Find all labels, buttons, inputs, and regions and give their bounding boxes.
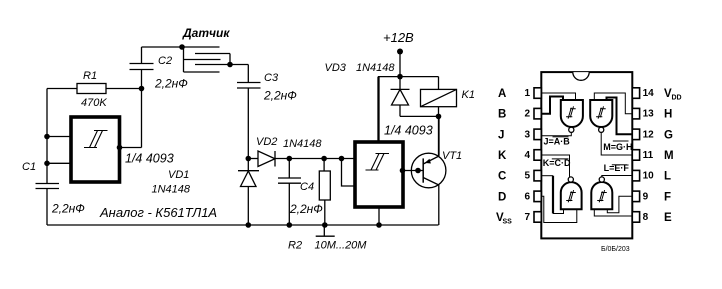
diode VD3 1N4148 [325,62,439,116]
svg-text:13: 13 [643,109,655,120]
pin 3 [498,129,541,141]
pin 6 [498,191,541,203]
wire gate4 out to pin10 L [602,176,633,177]
wire left vertical [46,89,48,226]
svg-text:A: A [498,88,506,100]
wire pin6 D to gate3 [541,196,577,222]
node C4 bottom [287,222,293,228]
diode VD2 1N4148 [248,136,355,167]
wire gate2 input stub [342,159,356,187]
svg-text:VD1: VD1 [168,169,189,181]
svg-text:1: 1 [525,88,531,99]
svg-text:9: 9 [643,191,649,202]
wire gate2 output to base [403,170,423,172]
capacitor C1 [22,161,85,216]
svg-text:VT1: VT1 [442,150,462,162]
svg-text:470K: 470K [81,97,107,109]
pin 7 [496,212,541,226]
svg-text:1N4148: 1N4148 [152,184,191,196]
svg-text:1/4 4093: 1/4 4093 [384,124,433,138]
svg-text:5: 5 [525,171,531,182]
node base junction [415,168,421,174]
svg-text:10: 10 [643,171,655,182]
svg-text:2,2нФ: 2,2нФ [263,89,297,103]
svg-text:11: 11 [643,150,654,161]
pin 2 [498,108,541,120]
svg-text:8: 8 [643,212,649,223]
svg-text:2,2нФ: 2,2нФ [289,202,323,216]
svg-text:2,2нФ: 2,2нФ [51,202,85,216]
pin 11 [632,150,673,162]
op-amp IC gate 4 [591,177,612,209]
svg-text:14: 14 [643,88,655,99]
wire sensor to C3 [230,65,248,83]
svg-text:J: J [498,129,504,141]
node gate1 input B [44,161,50,167]
node sensor right [227,62,233,68]
svg-text:E: E [664,212,672,224]
svg-text:DD: DD [672,95,682,102]
label analog [99,205,217,220]
pin 9 [632,191,671,203]
node gate1 input A [44,134,50,140]
svg-text:12: 12 [643,129,655,140]
op-amp U1 gate 1 (Schmitt trigger 1/4 4093) [71,117,174,182]
pin 8 [632,212,672,224]
wire pin2 B to gate1 [541,97,563,114]
node gate1 output [117,145,123,151]
resistor R2 [288,159,367,252]
svg-text:K=C·D: K=C·D [543,158,571,168]
svg-text:R1: R1 [83,70,97,82]
label equation L [604,163,630,173]
node VD1-VD2-C3 [246,156,252,162]
pin 5 [498,170,541,182]
svg-text:10М...20М: 10М...20М [315,240,368,252]
node gate2 output [400,168,406,174]
svg-text:3: 3 [525,129,531,140]
resistor R1 [47,70,142,109]
wire pin13 H to gate2 [594,93,632,114]
svg-text:K: K [498,150,507,162]
svg-text:L: L [664,171,671,183]
svg-text:G: G [664,129,673,141]
svg-text:1N4148: 1N4148 [356,62,395,74]
wire feedback vertical [120,89,142,148]
label equation J [544,137,571,147]
pin 1 [498,88,541,100]
svg-text:+12В: +12В [383,30,414,45]
svg-text:C2: C2 [158,55,172,67]
svg-text:C1: C1 [22,161,36,173]
svg-text:M=G·H: M=G·H [603,142,632,152]
svg-text:C: C [498,171,506,183]
node gate2 input [339,156,345,162]
svg-text:2: 2 [525,109,531,120]
capacitor C2 [130,47,189,91]
wire gate2 power top [378,77,380,142]
svg-text:F: F [664,191,671,203]
pin 12 [632,129,673,141]
node R2 top [321,156,327,162]
node sensor left [179,44,185,50]
wire bottom rail [47,224,439,226]
node 12V junction [397,74,403,80]
label equation K [543,158,571,168]
svg-text:H: H [664,109,672,121]
node VD1 bottom [246,222,252,228]
node R2 bottom [322,222,328,228]
svg-text:D: D [498,191,506,203]
svg-text:M: M [664,150,674,162]
svg-text:4: 4 [525,150,531,161]
svg-text:K1: K1 [462,89,475,101]
svg-text:7: 7 [525,212,531,223]
transistor VT1 [411,116,462,225]
pin 4 [498,150,541,162]
wire gate2 ground bottom [378,207,380,225]
svg-text:R2: R2 [288,240,302,252]
svg-text:Аналог - К561ТЛ1А: Аналог - К561ТЛ1А [99,205,217,220]
svg-text:VD2: VD2 [256,136,277,148]
relay K1 [421,77,475,156]
op-amp IC gate 3 [561,177,582,209]
svg-text:Датчик: Датчик [182,26,230,40]
op-amp IC gate 2 [590,100,612,132]
wire pin12 G to gate2 [607,98,633,135]
label equation M [603,141,632,152]
svg-text:6: 6 [525,191,531,202]
node VD3-K1-VT1 [436,114,442,120]
pin 13 [632,108,672,120]
capacitor C4 [278,159,323,226]
node C4 top [287,156,293,162]
op-amp IC gate 1 [561,100,583,132]
op-amp U1 gate 2 (Schmitt trigger 1/4 4093) [355,124,433,208]
svg-text:J=A·B: J=A·B [544,137,571,147]
wire pin9 F to gate4 [607,196,632,212]
diode VD1 1N4148 [152,159,260,226]
wire gate2 out to pin11 M [601,132,632,155]
wire pin5 C to gate3 [541,176,563,214]
IC U1 body K561TL1A pinout [541,72,632,238]
svg-text:2,2нФ: 2,2нФ [154,77,188,91]
svg-text:C3: C3 [264,72,279,84]
svg-text:B: B [498,109,506,121]
node R1-C2-output junction [139,86,145,92]
wire gate1 out to pin3 J [541,132,571,135]
wire pin1 A to gate1 [541,93,575,100]
power +12V [378,30,439,142]
node gate2 bottom [376,222,382,228]
sensor E1 Датчик [182,26,230,72]
svg-text:1N4148: 1N4148 [283,138,322,150]
wire top to sensor [142,46,183,48]
pin 10 [632,170,671,182]
wire pin8 E to gate4 [594,209,632,217]
wire gate1 input stubs [47,137,71,164]
wire gate3 out to pin4 K [541,155,569,177]
pin 14 [632,88,681,102]
capacitor C3 [237,72,297,159]
label chip marking [601,246,630,253]
svg-text:1/4 4093: 1/4 4093 [125,152,174,166]
svg-text:SS: SS [503,219,513,226]
svg-text:Б/0Б/203: Б/0Б/203 [601,246,630,253]
svg-text:VD3: VD3 [325,62,347,74]
svg-text:C4: C4 [300,181,314,193]
